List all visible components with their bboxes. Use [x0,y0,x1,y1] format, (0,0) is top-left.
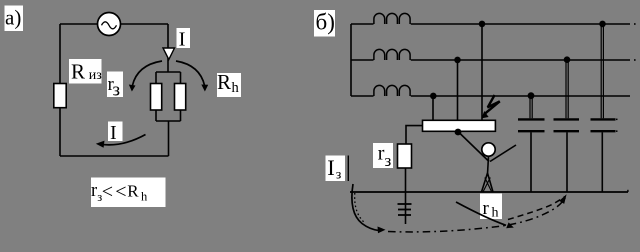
svg-text:I: I [327,155,335,180]
svg-text:а): а) [5,6,21,30]
svg-text:I: I [110,122,117,144]
svg-text:R: R [127,182,139,201]
svg-text:<<: << [102,181,129,203]
svg-text:h: h [232,80,240,96]
svg-text:з: з [336,168,342,183]
svg-text:I: I [179,29,186,51]
svg-text:б): б) [316,10,335,35]
svg-text:из: из [89,68,102,83]
svg-text:h: h [141,190,148,204]
svg-text:з: з [385,151,392,170]
svg-text:з: з [113,80,121,101]
svg-text:R: R [217,70,231,94]
svg-text:R: R [71,60,85,84]
svg-text:h: h [492,206,499,221]
svg-text:r: r [91,181,97,201]
